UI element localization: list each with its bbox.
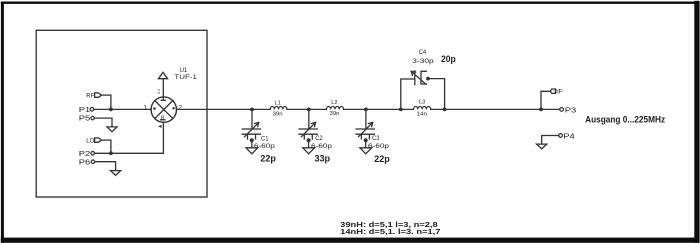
C4 contact dot (426, 77, 430, 81)
svg-text:2: 2 (178, 104, 182, 111)
pin circle P5 (91, 116, 94, 119)
mixer X cross (155, 101, 173, 119)
mixer inner left mark (153, 107, 155, 109)
svg-text:3-30p: 3-30p (412, 58, 434, 65)
svg-text:3,4: 3,4 (157, 89, 161, 94)
tank left junction (399, 108, 403, 112)
inner module box (36, 30, 207, 197)
mixer top pin (162, 79, 164, 101)
mixer bottom pin tick (161, 119, 166, 121)
ground arrow P4 (537, 144, 547, 149)
ground arrow C1 (246, 148, 258, 154)
C4 bent plate (421, 71, 426, 84)
C2 plate ticks (304, 134, 312, 139)
C1 trimmer arrow (245, 122, 259, 136)
wire to IF flag (541, 91, 550, 109)
pin circle P4 (559, 134, 563, 138)
C1 bottom plate (242, 133, 260, 135)
port LO flag (95, 138, 102, 142)
svg-text:22p: 22p (260, 154, 276, 164)
svg-text:L1: L1 (275, 100, 281, 106)
svg-text:14nH: d=5,1. l=3. n=1,7: 14nH: d=5,1. l=3. n=1,7 (340, 227, 440, 236)
C3 top plate (356, 128, 374, 130)
svg-text:P6: P6 (79, 158, 91, 167)
C3 bottom plate (356, 133, 374, 135)
mixer supply triangle (158, 72, 167, 78)
C1 lead to ground (251, 141, 253, 148)
svg-text:1: 1 (144, 104, 148, 111)
svg-text:C2: C2 (315, 135, 323, 142)
C4 trimmer arrow (411, 71, 426, 84)
bus wire L1 to L2 (287, 108, 327, 110)
wire P4 to ground (542, 136, 559, 145)
svg-text:LO: LO (86, 137, 94, 144)
junction LO/P2 (109, 151, 113, 155)
tank right junction (443, 108, 447, 112)
ground arrow C2 (303, 148, 315, 154)
inductor L1 (270, 107, 287, 110)
ground arrow P5 (107, 127, 117, 132)
C3 trimmer arrow (359, 122, 373, 136)
svg-text:P3: P3 (565, 106, 577, 115)
C3 lead (365, 109, 367, 128)
C2 lead (308, 109, 310, 128)
pin circle P3 (560, 108, 564, 112)
wire P2 to mixer bottom pin (95, 122, 164, 153)
C3 lead to ground (365, 141, 367, 148)
mixer top pin tick (161, 99, 165, 101)
wire P6 to ground (95, 162, 116, 171)
frame top (1, 2, 699, 4)
frame bottom (1, 238, 699, 243)
C4 wire to right riser (430, 79, 445, 110)
svg-text:33p: 33p (315, 153, 331, 163)
C3 plate ticks (361, 134, 369, 139)
svg-text:22p: 22p (374, 154, 390, 164)
C1 lead (251, 109, 253, 128)
C3 contact dot (364, 138, 368, 142)
C2 top plate (299, 128, 317, 130)
svg-text:C1: C1 (261, 135, 269, 142)
main bus wire mixer to L1 (177, 108, 271, 110)
svg-text:IF: IF (556, 89, 563, 96)
bus wire L2 to tank (344, 108, 414, 110)
wire P5 to ground (94, 118, 112, 127)
ground arrow P6 (111, 171, 121, 176)
svg-text:39n: 39n (273, 111, 283, 117)
mixer U1 circle (151, 97, 176, 122)
tank left riser (401, 79, 415, 109)
pin circle P2 (91, 152, 95, 156)
svg-text:TUF-1: TUF-1 (174, 74, 197, 81)
C4 left plate (414, 71, 416, 85)
junction C3 (364, 108, 368, 112)
svg-text:L2: L2 (331, 100, 337, 106)
svg-text:20p: 20p (441, 54, 456, 64)
pin circle P1 (90, 108, 94, 112)
junction RF/P1 (109, 108, 113, 112)
junction C1 (250, 108, 254, 112)
svg-text:C4: C4 (419, 49, 427, 56)
svg-text:Ausgang 0...225MHz: Ausgang 0...225MHz (585, 114, 665, 124)
frame right (694, 1, 699, 243)
wire P1 to mixer pin1 (94, 108, 152, 110)
C2 trimmer arrow (301, 122, 315, 136)
wire RF to node (102, 95, 111, 109)
port IF flag (550, 89, 555, 93)
frame left (1, 2, 4, 243)
wire LO to node (102, 140, 111, 153)
mixer inner right mark (172, 107, 174, 109)
C2 bottom plate (299, 133, 317, 135)
svg-text:39n: 39n (330, 111, 340, 117)
pin circle P6 (91, 160, 94, 163)
inductor L3 (414, 107, 431, 110)
junction C2 (307, 108, 311, 112)
svg-text:6-60p: 6-60p (311, 143, 333, 150)
C1 top plate (242, 128, 260, 130)
ground arrow C3 (360, 148, 372, 154)
svg-text:L3: L3 (419, 100, 425, 106)
svg-text:14n: 14n (417, 111, 428, 117)
C1 plate ticks (248, 134, 256, 139)
bus wire tank to output (431, 108, 560, 110)
svg-text:6-60p: 6-60p (368, 143, 390, 150)
C2 lead to ground (308, 141, 310, 148)
output junction (539, 108, 543, 112)
svg-text:U1: U1 (180, 67, 188, 74)
mixer bottom pin mark (158, 125, 162, 128)
port RF flag (95, 93, 102, 97)
svg-text:RF: RF (86, 92, 94, 99)
svg-text:8: 8 (161, 115, 165, 121)
inductor L2 (326, 107, 343, 110)
C2 contact dot (307, 138, 311, 142)
svg-text:P4: P4 (563, 132, 575, 141)
svg-text:P5: P5 (79, 114, 91, 123)
C1 contact dot (250, 138, 254, 142)
svg-text:6-60p: 6-60p (254, 143, 276, 150)
svg-text:C3: C3 (372, 135, 380, 142)
